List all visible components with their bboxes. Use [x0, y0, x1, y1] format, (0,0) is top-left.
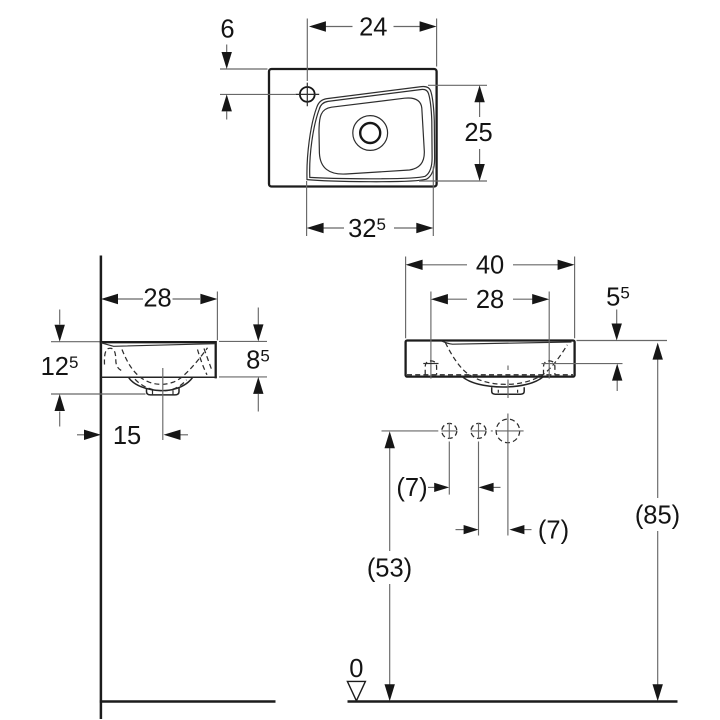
dim 32.5 arrows [307, 223, 324, 233]
svg-text:(53): (53) [367, 555, 412, 583]
dim 6 arrow down [226, 45, 228, 53]
dim 8.5 arrow down [257, 308, 259, 325]
dim (85) line [657, 357, 659, 686]
drain outer circle [353, 116, 388, 151]
dim (85) arrows [653, 343, 663, 360]
drain hole symbol 3 [496, 419, 520, 443]
rim inner edge (side) [101, 343, 216, 347]
dim 40 line [422, 264, 558, 266]
basin bottom edge (side) [101, 376, 217, 378]
svg-text:0: 0 [349, 655, 363, 683]
left tap hole centerline / extension [430, 292, 432, 379]
fixing hole symbol 2 [471, 423, 486, 438]
dim (7) first: arrow right [428, 486, 436, 488]
svg-text:(85): (85) [635, 502, 680, 530]
fixing hole 1 centerline [448, 442, 450, 495]
hidden back wall lines (dashed) [198, 350, 208, 375]
drain trap inner ticks [153, 390, 174, 395]
dim 15 arrow left (at drain axis) [179, 434, 189, 436]
basin outline (plan) [269, 69, 437, 187]
dim 12.5 arrow down [59, 310, 61, 325]
basin body outline (front) [406, 341, 575, 377]
dim 40 arrows [406, 260, 423, 270]
dim 24 line [325, 26, 421, 28]
dim (7) second: arrow right [456, 529, 465, 531]
svg-text:15: 15 [113, 422, 141, 450]
drain trap cup (side) [147, 388, 180, 395]
basin body outline (side) [101, 342, 216, 377]
dim 32.5 extension lines [307, 167, 434, 237]
dim 12.5 extension lines [51, 342, 146, 394]
fixing hole symbol 1 [442, 423, 457, 438]
dim 28 side extension [216, 292, 218, 341]
dim 28 side line [118, 298, 200, 300]
dim 5.5 arrow down [616, 310, 618, 325]
dim 28 front arrows [431, 294, 448, 304]
hidden bowl bottom (dashed) [135, 379, 187, 391]
svg-text:6: 6 [220, 16, 234, 44]
hidden bowl outline (dashed front) [445, 343, 567, 385]
right tap hole centerline / extension [548, 292, 550, 379]
dim (7) second: arrow left [524, 529, 532, 531]
dim 28 side arrows [101, 294, 118, 304]
hidden overflow channel (dashed) [104, 348, 124, 372]
svg-text:25: 25 [464, 119, 492, 147]
drain centerline (front) [507, 366, 509, 399]
dim 40 extension lines [406, 257, 575, 339]
svg-text:(7): (7) [538, 517, 569, 545]
dim 12.5 arrow up [59, 412, 61, 427]
bowl outer rim line [307, 86, 435, 181]
extension line top edge (dim 6) [220, 68, 268, 70]
hidden bottom edge (dashed front) [407, 374, 573, 376]
tap hole cross lines [296, 83, 320, 107]
floor line (right) [348, 700, 678, 702]
drain inner circle [360, 123, 380, 143]
dim 24 extension lines [307, 19, 436, 82]
dim 15 arrow right (at wall) [77, 434, 86, 436]
drain trap cup (front) [492, 387, 525, 394]
floor line (left) [100, 700, 276, 702]
wall line [100, 256, 103, 720]
dim 25 extension lines [419, 85, 487, 181]
bowl inner rim line [310, 89, 432, 178]
dim 5.5 extension lines [542, 341, 668, 364]
tap hole circle [300, 87, 315, 102]
dim 24 arrows [309, 21, 326, 31]
dim 6 arrow up [226, 112, 228, 120]
svg-text:28: 28 [143, 285, 171, 313]
svg-text:(7): (7) [396, 474, 427, 502]
drain trap inner ticks (front) [498, 390, 517, 393]
fixing hole 2 centerline [478, 442, 480, 536]
rim inner edge (front) [442, 341, 572, 344]
svg-text:28: 28 [476, 286, 504, 314]
bowl basin inner wall [319, 98, 424, 174]
dim 25 arrows [474, 85, 484, 102]
dim (7) first: arrow left [493, 486, 501, 488]
dim (53) arrows [385, 431, 395, 448]
zero level triangle [347, 681, 365, 700]
left tap hole axis tick [423, 363, 438, 365]
left tap hole (dashed) [425, 361, 436, 375]
dim 25 line [479, 101, 481, 165]
bowl underside (front) [462, 377, 544, 387]
dim 8.5 extension lines [219, 341, 267, 377]
dim 28 front line [447, 298, 533, 300]
dim 5.5 arrow up [616, 381, 618, 392]
bowl underside (side) [129, 377, 193, 390]
svg-text:40: 40 [476, 252, 504, 280]
dim 8.5 arrow up [257, 394, 259, 412]
right tap hole (dashed) [544, 361, 555, 375]
extension line hole axis (dim 6) [220, 93, 295, 95]
dim 32.5 line [323, 227, 417, 229]
datum line at fixing height [382, 430, 439, 432]
drain centerline (side) [162, 368, 164, 440]
svg-text:24: 24 [359, 13, 387, 41]
hidden bowl profile (dashed) [122, 348, 208, 385]
dim (53) line [389, 446, 391, 686]
